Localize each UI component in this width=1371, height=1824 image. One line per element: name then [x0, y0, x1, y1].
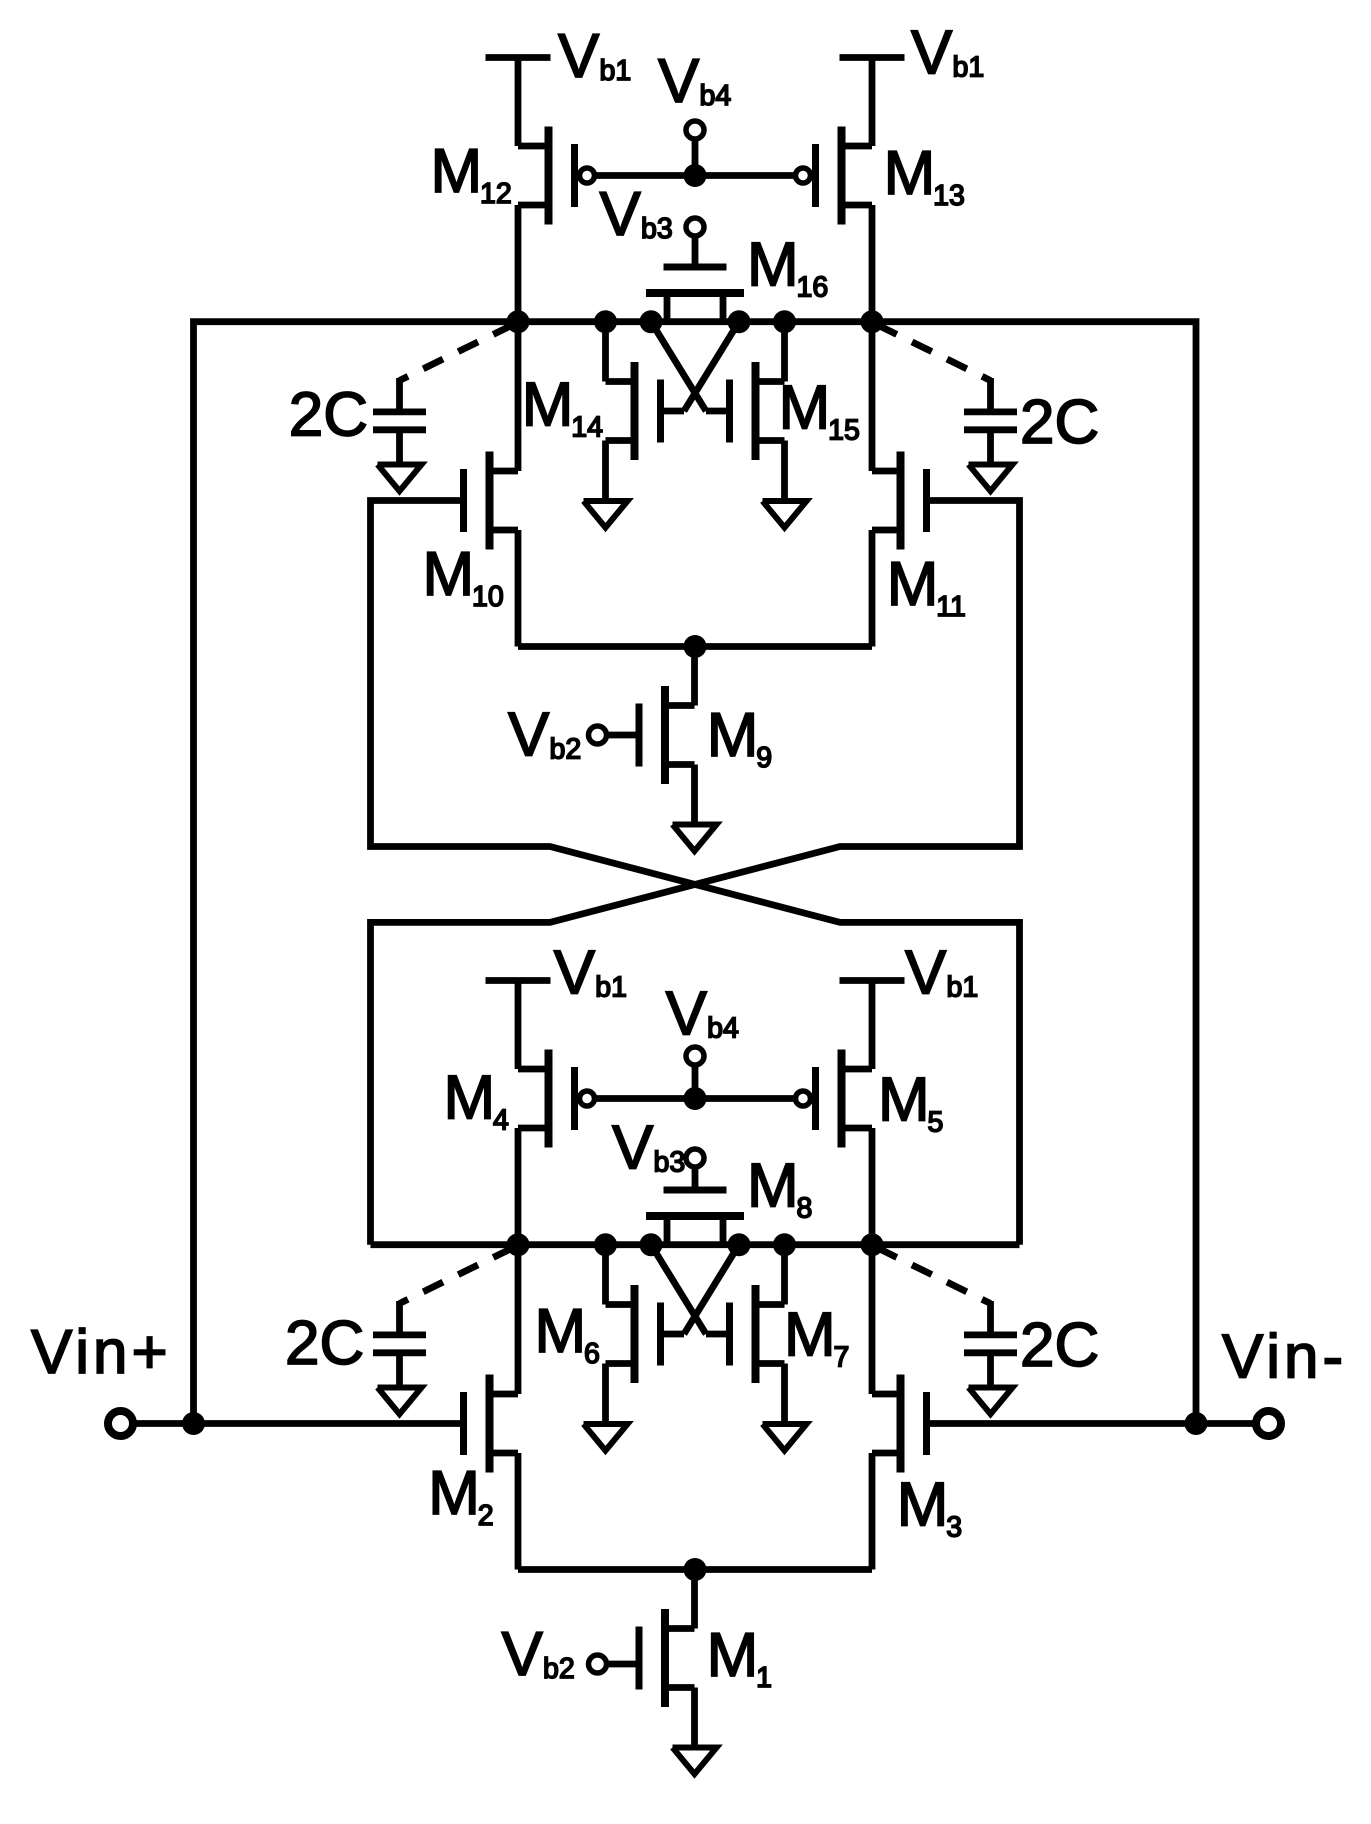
- svg-text:M: M: [444, 1064, 496, 1133]
- svg-text:M: M: [747, 1152, 799, 1221]
- svg-text:b3: b3: [641, 213, 673, 245]
- svg-text:M: M: [707, 1621, 759, 1690]
- svg-text:2C: 2C: [1020, 388, 1099, 457]
- svg-text:8: 8: [797, 1193, 813, 1225]
- svg-text:V: V: [666, 980, 708, 1049]
- svg-text:V: V: [600, 180, 642, 249]
- svg-text:4: 4: [493, 1105, 509, 1137]
- svg-text:V: V: [508, 701, 550, 770]
- svg-text:M: M: [884, 139, 936, 208]
- svg-text:b1: b1: [595, 972, 627, 1004]
- svg-text:M: M: [878, 1066, 930, 1135]
- svg-text:V: V: [658, 47, 700, 116]
- svg-text:M: M: [423, 540, 475, 609]
- svg-text:b1: b1: [947, 972, 979, 1004]
- svg-text:V: V: [554, 939, 596, 1008]
- svg-text:V: V: [905, 939, 947, 1008]
- svg-text:M: M: [897, 1470, 949, 1539]
- svg-text:2: 2: [478, 1500, 494, 1532]
- svg-text:V: V: [911, 19, 953, 88]
- svg-text:M: M: [779, 373, 831, 442]
- svg-text:M: M: [428, 1459, 480, 1528]
- svg-text:M: M: [535, 1297, 587, 1366]
- svg-text:M: M: [522, 371, 574, 440]
- svg-text:3: 3: [946, 1511, 962, 1543]
- svg-text:M: M: [431, 137, 483, 206]
- svg-text:1: 1: [756, 1662, 772, 1694]
- svg-text:12: 12: [480, 178, 512, 210]
- svg-text:V: V: [502, 1620, 544, 1689]
- svg-text:6: 6: [584, 1338, 600, 1370]
- svg-text:b2: b2: [550, 734, 582, 766]
- svg-text:M: M: [784, 1301, 836, 1370]
- svg-text:9: 9: [756, 742, 772, 774]
- svg-text:7: 7: [834, 1342, 850, 1374]
- svg-text:5: 5: [928, 1107, 944, 1139]
- svg-text:b4: b4: [700, 80, 732, 112]
- svg-text:b4: b4: [707, 1013, 739, 1045]
- svg-text:2C: 2C: [289, 381, 368, 450]
- svg-text:V: V: [612, 1114, 654, 1183]
- svg-text:16: 16: [797, 272, 829, 304]
- svg-text:2C: 2C: [1020, 1311, 1099, 1380]
- svg-text:15: 15: [828, 414, 860, 446]
- svg-text:V: V: [558, 22, 600, 91]
- svg-text:Vin-: Vin-: [1222, 1323, 1347, 1392]
- svg-text:b1: b1: [600, 55, 632, 87]
- svg-text:14: 14: [571, 412, 603, 444]
- svg-text:b3: b3: [654, 1147, 686, 1179]
- svg-text:11: 11: [936, 591, 966, 623]
- svg-text:M: M: [887, 550, 939, 619]
- svg-text:Vin+: Vin+: [31, 1318, 172, 1387]
- svg-text:b1: b1: [953, 52, 985, 84]
- svg-text:2C: 2C: [285, 1309, 364, 1378]
- svg-text:13: 13: [933, 180, 965, 212]
- svg-text:b2: b2: [543, 1653, 575, 1685]
- svg-text:M: M: [707, 701, 759, 770]
- svg-text:10: 10: [472, 581, 504, 613]
- svg-text:M: M: [747, 231, 799, 300]
